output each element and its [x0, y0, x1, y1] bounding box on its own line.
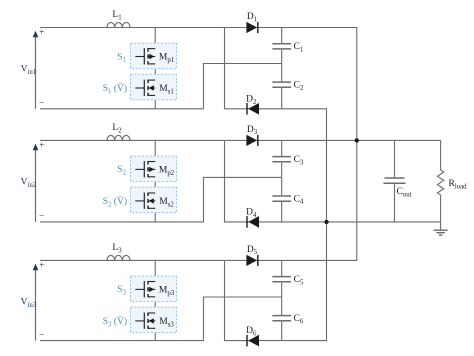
capacitor C4	[272, 196, 291, 201]
(cap plate gaps)	[281, 157, 283, 161]
wire: phase 3 capacitor string vertical	[281, 260, 283, 340]
wire: phase 3 top-rail to bottom-diode vertical	[224, 260, 226, 341]
(cap plate gaps)	[281, 44, 283, 48]
(cap plate gaps)	[281, 277, 283, 281]
svg-text:S1 (V̄): S1 (V̄)	[103, 82, 127, 95]
wire: phase 2 bottom rail right segment	[225, 221, 441, 223]
node: junction intermediate bus with output negative rail	[324, 220, 328, 224]
capacitor C6	[272, 316, 291, 321]
capacitor C1	[272, 44, 291, 49]
capacitor C3	[272, 157, 291, 162]
transistor M_s3	[135, 313, 155, 329]
diode D1	[246, 22, 257, 33]
wire: intermediate bus (phase-1 bottom to phase-3 bottom)	[326, 108, 328, 341]
diode D2	[247, 103, 259, 115]
wire: phase 1 top rail	[40, 27, 357, 29]
MOSFET M_s2 dashed box	[131, 187, 177, 213]
inductor L3	[107, 255, 130, 260]
transistor M_p2	[135, 161, 155, 177]
capacitor C5	[272, 277, 291, 282]
diode D4	[247, 216, 259, 228]
node: junction output+ with phase-2 rail	[355, 138, 359, 142]
svg-text:+: +	[39, 140, 44, 150]
wire: phase 3 bottom rail left segment	[40, 340, 204, 342]
transistor M_s2	[135, 193, 155, 209]
svg-text:+: +	[39, 260, 44, 270]
wire: phase 2 top rail	[40, 139, 441, 141]
svg-text:−: −	[39, 211, 44, 221]
svg-text:−: −	[39, 329, 44, 339]
capacitor C2	[272, 82, 291, 87]
wire: phase 1 bottom rail left segment	[40, 108, 204, 110]
diode D6	[247, 335, 259, 347]
MOSFET M_p3 dashed box	[131, 276, 177, 302]
diode D5	[246, 255, 257, 266]
wire: phase 3 source-return vertical up to capacitor midpoint wire	[204, 297, 282, 341]
wire: phase 3 switch-node vertical (top rail to bottom rail through MOSFETs)	[154, 260, 156, 340]
svg-text:+: +	[39, 27, 44, 37]
svg-text:S2 (V̄): S2 (V̄)	[103, 195, 127, 208]
transistor M_s1	[135, 80, 155, 96]
voltage source Vin2 (arrow symbol)	[35, 147, 37, 222]
MOSFET M_s3 dashed box	[131, 307, 177, 333]
wire: phase 2 source-return vertical up to capacitor midpoint wire	[204, 177, 282, 222]
wire: phase 2 top-rail to bottom-diode vertical	[224, 140, 226, 222]
MOSFET M_p2 dashed box	[131, 156, 177, 182]
wire: output positive bus (vertical, D1 cathode rail down to phase-3 rail)	[356, 27, 358, 261]
wire: phase 2 capacitor string vertical	[281, 140, 283, 222]
inductor L1	[107, 22, 130, 27]
transistor M_p1	[135, 48, 155, 64]
diode D3	[246, 135, 257, 146]
resistor Rload	[437, 140, 443, 222]
inductor L2	[107, 135, 130, 140]
wire: phase 1 capacitor string vertical	[281, 28, 283, 109]
wire: phase 3 top rail	[40, 259, 357, 261]
voltage source Vin1 (arrow symbol)	[35, 34, 37, 109]
wire: phase 2 bottom rail left segment	[40, 221, 204, 223]
capacitor Cout	[394, 140, 396, 178]
wire: phase 2 switch-node vertical (top rail to bottom rail through MOSFETs)	[154, 140, 156, 222]
transistor M_p3	[135, 281, 155, 297]
svg-text:−: −	[39, 98, 44, 108]
ground	[434, 222, 448, 235]
voltage source Vin3 (arrow symbol)	[35, 267, 37, 341]
wire: phase 1 bottom rail right segment	[225, 108, 327, 110]
svg-text:S3 (V̄): S3 (V̄)	[103, 315, 127, 328]
MOSFET M_s1 dashed box	[131, 74, 177, 100]
wire: phase 3 bottom rail right segment	[225, 340, 327, 342]
wire: phase 1 top-rail to bottom-diode vertical	[224, 28, 226, 110]
MOSFET M_p1 dashed box	[131, 43, 177, 68]
wire: phase 1 switch-node vertical (top rail to bottom rail through MOSFETs)	[154, 28, 156, 109]
wire: phase 1 source-return vertical up to capacitor midpoint wire	[204, 64, 282, 109]
